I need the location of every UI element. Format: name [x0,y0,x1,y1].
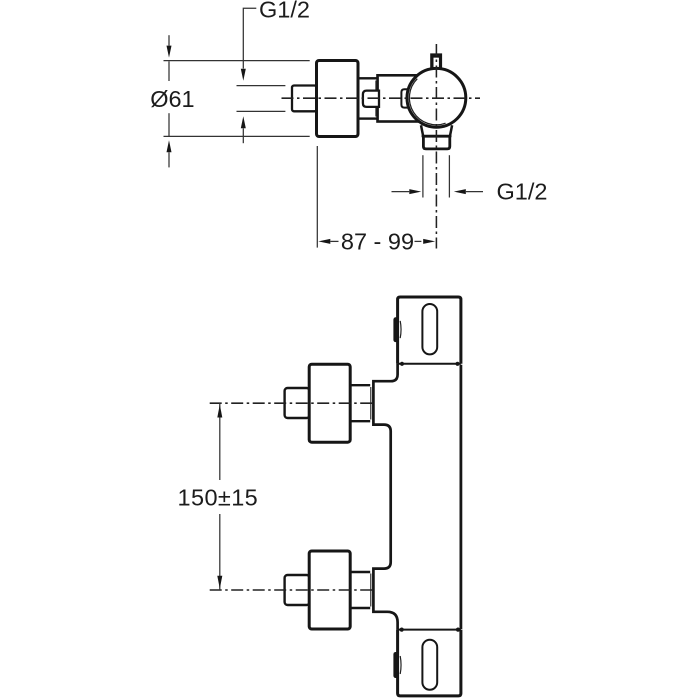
node: body rect of mixer (side view) [378,75,430,121]
dimension 87-99 line and arrows [318,239,330,244]
wire: leader from G1/2 label [243,8,256,68]
svg-text:Ø61: Ø61 [150,86,194,112]
wire: thin joint line at step/body interface [375,81,377,117]
node: lower knob cap [285,575,310,605]
node: handle knob small cap (left) [292,86,317,112]
node: outlet flange under circle [421,125,452,137]
wire: horizontal centerline of handle axis [282,97,481,99]
wire: extension lines of inlet thread [237,85,286,87]
svg-text:G1/2: G1/2 [497,179,548,205]
node: handle main rect [317,61,359,137]
node: outlet nut top edge [422,135,452,137]
dimension G1/2 bottom arrows [392,191,410,193]
svg-text:150±15: 150±15 [178,485,259,511]
wire: extension line top of handle (O61) [164,60,310,62]
wire: centerline upper knob [210,402,374,404]
node: top wall plate [398,297,461,364]
node: outlet nut [423,136,449,149]
node: small cap cylinder in front of joint [363,91,379,107]
node: lower knob step [350,572,370,608]
wire: thin joint line lower knob [370,574,372,607]
node: wall plate bottom tab [393,652,398,678]
node: main cylinder circle [407,68,466,127]
wire: column right edge [459,365,462,629]
node: bottom wall plate [398,630,461,696]
dimension 150+-15 line and arrows [219,403,221,480]
node: lower knob main rect [309,551,350,629]
wire: inner thin arc shading of circle [409,79,445,125]
wire: thin joint line upper knob [370,387,372,420]
wire: vertical centerline through circle and outlet [435,44,437,249]
node: upper knob cap [285,388,310,418]
node: bottom plate slot [422,640,437,690]
svg-text:87 - 99: 87 - 99 [341,229,414,255]
node: step section between handle and body [358,78,378,118]
wire: top tab inner arc [399,321,402,338]
wire: body left contour with S-curves [373,364,397,630]
wire: bottom tab inner arc [399,656,402,674]
node: junction dots at plate edges [400,362,404,366]
node: top plate slot [422,304,437,354]
wire: centerline lower knob [210,589,374,591]
node: upper knob step [350,385,370,421]
wire: extension line bottom of handle (O61) [164,135,310,137]
node: upper knob main rect [309,364,350,442]
node: wall plate top tab [393,317,398,342]
dimension O61 vertical line and arrows [168,35,170,45]
node: top G1/2 tab above circle [430,53,442,68]
wire: extension lines below outlet [422,155,424,197]
wire: extension line from handle left edge [316,146,318,248]
svg-text:G1/2: G1/2 [259,0,310,23]
node: cartridge lens on left of circle [401,89,409,107]
